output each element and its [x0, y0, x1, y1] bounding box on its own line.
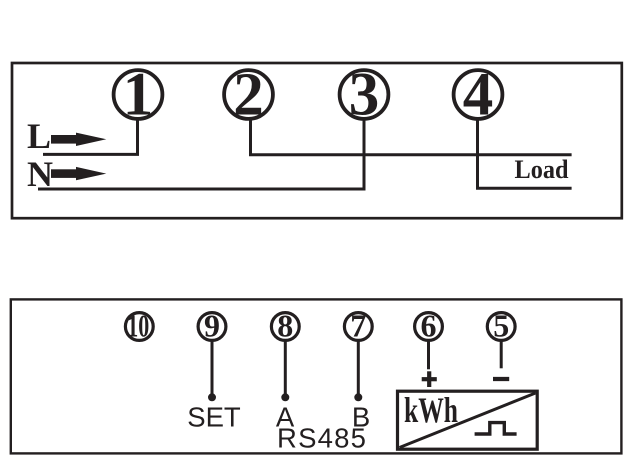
svg-text:Load: Load: [515, 154, 569, 184]
svg-text:4: 4: [463, 62, 494, 129]
svg-text:1: 1: [123, 62, 154, 129]
svg-text:8: 8: [277, 308, 293, 344]
svg-text:10: 10: [127, 308, 149, 344]
svg-text:5: 5: [493, 308, 509, 344]
svg-text:3: 3: [349, 62, 380, 129]
svg-text:kWh: kWh: [404, 390, 458, 430]
svg-text:RS485: RS485: [277, 422, 367, 453]
svg-text:9: 9: [204, 308, 220, 344]
svg-text:SET: SET: [187, 401, 241, 432]
svg-text:6: 6: [421, 308, 437, 344]
svg-text:L: L: [27, 116, 51, 156]
svg-text:N: N: [27, 154, 53, 194]
svg-text:7: 7: [350, 308, 366, 344]
svg-text:2: 2: [233, 62, 264, 129]
